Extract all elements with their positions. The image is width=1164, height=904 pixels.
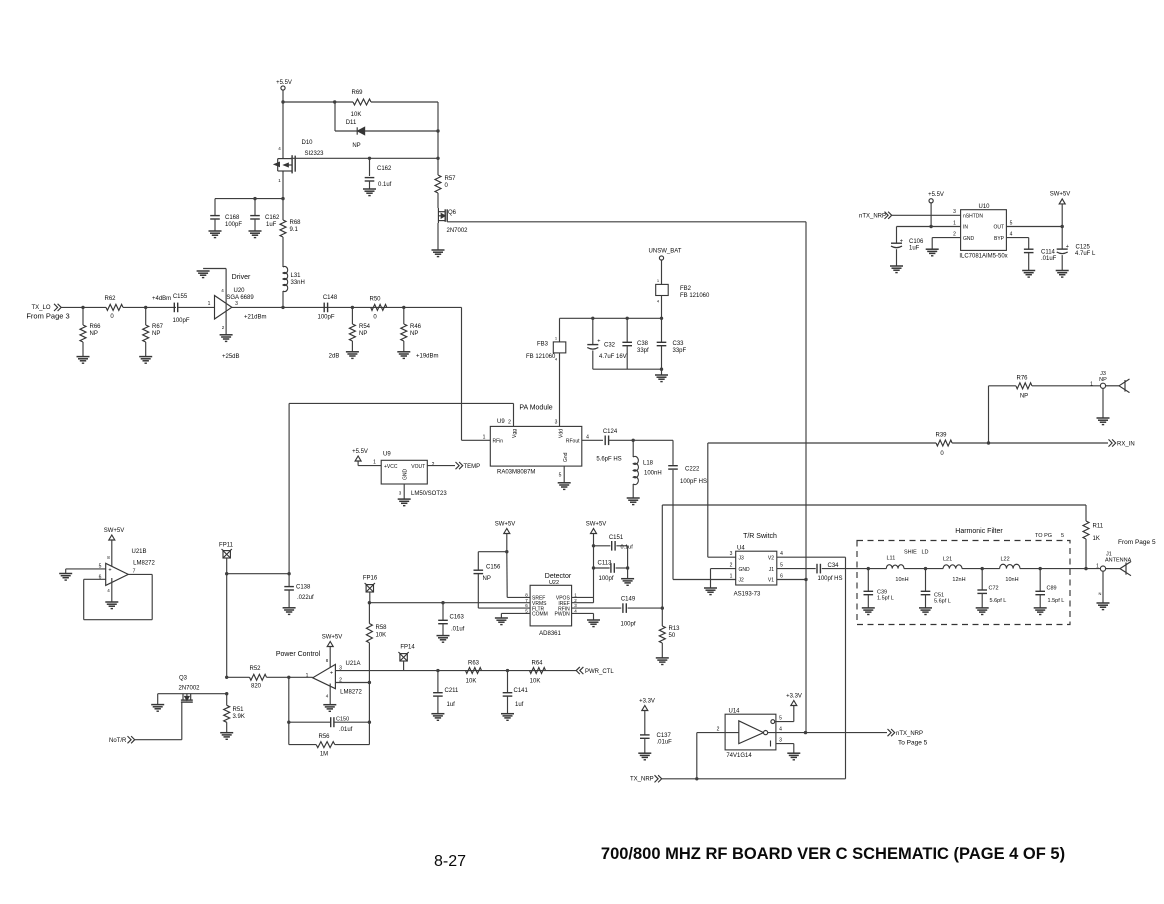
wire +5.5V to IN [930,203,932,226]
power +5.5V supply top-left [281,86,285,90]
junction C156 top [505,550,508,553]
wire [369,158,371,176]
svg-text:+19dBm: +19dBm [416,354,439,360]
svg-text:2N7002: 2N7002 [178,686,200,692]
svg-text:C125: C125 [1076,245,1091,251]
wire [335,744,370,746]
test point FP11 [222,549,232,558]
svg-text:10K: 10K [530,679,541,685]
ground below C137 [638,753,651,760]
junction C151 [592,544,595,547]
svg-text:RFout: RFout [566,439,580,445]
wire U14 pin5 VCC [771,720,775,724]
wire [632,440,634,457]
svg-text:AS193-73: AS193-73 [734,592,761,598]
ground below J1 [1097,603,1110,610]
wire [1020,568,1101,570]
svg-text:FB2: FB2 [680,286,692,292]
svg-text:.01uF: .01uF [657,740,673,746]
wire [981,569,983,590]
resistor R39 (0) [936,440,952,446]
svg-text:U21A: U21A [345,661,360,667]
wire VOUT to TEMP [427,465,455,467]
wire [867,569,869,592]
svg-text:Harmonic Filter: Harmonic Filter [955,528,1003,535]
svg-text:10K: 10K [466,679,477,685]
wire C149 to node [628,607,663,609]
ground below C72 [976,608,989,615]
temp sensor U9 LM50/SOT23 [381,460,427,484]
ground below R51 [220,733,233,740]
wire [896,249,898,266]
wire U21A V+ pin [329,647,331,671]
junction L31 feed [281,306,284,309]
wire PA gnd pin [563,466,565,483]
wire nTX_NRP to nSHTDN [892,214,961,216]
svg-text:1: 1 [1090,382,1093,388]
power SW+5V for U21B [109,535,115,540]
wire J3 to ground [1102,388,1104,418]
svg-text:R64: R64 [531,661,543,667]
wire R57 to Q6 drain [437,193,439,208]
svg-text:C148: C148 [323,295,338,301]
svg-text:10K: 10K [376,633,387,639]
wire U14 pin3 GND [770,741,772,747]
wire bypass rail [560,317,662,319]
wire FP16 down [369,592,371,603]
wire [644,738,646,753]
wire R58 to U21A pin2 [368,643,370,683]
svg-text:C113: C113 [598,561,613,567]
power SW+5V for U21A [327,642,333,647]
svg-text:R57: R57 [445,176,457,182]
junction +5.5V / R69 line [281,100,284,103]
svg-text:FB 121060: FB 121060 [526,354,556,360]
svg-text:PA Module: PA Module [519,405,552,412]
svg-text:4: 4 [779,727,782,733]
svg-text:J2: J2 [739,578,745,584]
svg-text:NP: NP [410,331,418,337]
junction output/feedback [287,676,290,679]
svg-text:TEMP: TEMP [464,464,481,470]
svg-text:33pF: 33pF [673,348,687,354]
svg-text:V1: V1 [768,578,774,584]
svg-text:3.9K: 3.9K [233,714,245,720]
junction SW+5V node [1061,225,1064,228]
svg-text:LM50/SOT23: LM50/SOT23 [411,491,447,497]
svg-text:PWDN: PWDN [555,612,571,618]
junction V1/bus [804,578,807,581]
harmonic filter shield dashed box [857,541,1070,625]
ground T/R switch [704,588,717,595]
ground below U14 [787,753,800,760]
wire OUT pin [1006,226,1062,228]
ground below U10 GND [926,249,939,256]
junction D11 branch [333,100,336,103]
ground Q3 source [151,705,164,712]
svg-text:+5.5V: +5.5V [276,80,292,86]
svg-text:SW+5V: SW+5V [1050,192,1071,198]
wire U21B V+ pin [111,540,113,570]
ground below R67 [139,357,152,364]
svg-text:6: 6 [780,574,783,580]
junction IN node [929,225,932,228]
svg-text:SW+5V: SW+5V [322,635,343,641]
inductor L11 (10nH) [886,565,904,569]
wire FP11 node to C138 node [227,573,289,575]
junction R66 [81,306,84,309]
svg-text:RFin: RFin [493,439,504,445]
wire [594,567,610,569]
wire [145,307,147,325]
svg-text:COMM: COMM [532,612,548,618]
wire FP14 down [403,661,405,671]
wire RF sense riser [661,505,663,608]
ground below U20 [220,335,233,342]
svg-text:SW+5V: SW+5V [495,522,516,528]
junction C39 [867,567,870,570]
wire [214,199,216,216]
wire [254,219,256,231]
wire [334,721,369,723]
resistor R11 (1K) [1083,521,1089,539]
wire TX_LO to R62 [62,306,107,308]
svg-text:R62: R62 [104,296,116,302]
wire [145,342,147,357]
svg-text:Driver: Driver [232,274,251,281]
svg-text:3: 3 [779,738,782,744]
capacitor C124 (5.6pF HS) [604,436,606,446]
svg-text:From Page 5: From Page 5 [1118,539,1156,546]
svg-text:+: + [1066,244,1069,250]
svg-text:5.6pF HS: 5.6pF HS [596,457,621,463]
wire [594,545,611,547]
svg-text:C168: C168 [225,215,240,221]
junction bus/output [804,731,807,734]
junction FP11 node [225,572,228,575]
svg-text:L21: L21 [943,557,952,563]
wire U21A output [289,676,313,678]
svg-text:C155: C155 [173,294,188,300]
svg-text:R68: R68 [290,220,302,226]
svg-text:J3: J3 [739,555,745,561]
wire R76 to J3 [1032,385,1101,387]
wire [507,671,509,693]
junction C150 left [287,721,290,724]
wire [1039,595,1041,608]
svg-text:AD8361: AD8361 [539,631,561,637]
svg-text:C150: C150 [336,717,349,723]
wire D11 cathode to right rail [365,130,438,132]
svg-text:3: 3 [953,209,956,215]
wire bypass rail bottom [593,368,662,370]
svg-text:5.6pf L: 5.6pf L [990,598,1007,604]
antenna symbol at J3 [1106,379,1130,393]
wire VRMS line [369,602,530,604]
svg-text:J1: J1 [769,567,775,573]
wire FB3 to PA Vdd [559,353,561,427]
svg-text:820: 820 [251,684,262,690]
junction pin2/R58/feedback [368,681,371,684]
svg-text:33nH: 33nH [291,280,305,286]
svg-text:To Page 5: To Page 5 [898,740,928,747]
svg-text:2N7002: 2N7002 [446,228,468,234]
svg-text:2dB: 2dB [329,354,340,360]
wire J1 to ground [1102,571,1104,603]
svg-text:4: 4 [1010,232,1013,238]
wire [369,181,371,189]
wire [82,307,84,325]
svg-text:GND: GND [403,469,409,481]
ground U21B pin5 [59,574,72,581]
wire [368,603,370,624]
svg-text:N: N [1099,591,1102,596]
svg-text:R54: R54 [359,324,371,330]
wire U10 GND pin [932,237,960,239]
junction FP16/VRMS/R58 [368,601,371,604]
op-amp U20 driver SGA-6689 [215,296,232,320]
junction R76 branch [987,441,990,444]
svg-text:GND: GND [739,567,751,573]
wire U21B feedback loop [151,574,153,619]
svg-text:C162: C162 [265,215,280,221]
svg-text:Gnd: Gnd [563,452,569,462]
wire [267,676,289,678]
ground below C138 [283,608,296,615]
wire VPOS pin [572,596,594,598]
resistor R50 [371,304,387,310]
wire [226,722,228,732]
wire IREF pin [572,602,594,604]
svg-text:3: 3 [235,301,238,307]
junction C162b [253,197,256,200]
wire C156 to FLTR [477,574,479,608]
T/R switch U4 AS193-73 [736,551,777,585]
wire FB2 down [661,296,663,319]
junction C51 [924,567,927,570]
wire [1039,569,1041,592]
ground below R54 [346,352,359,359]
svg-text:1uf: 1uf [447,702,456,708]
svg-text:nTX_NRP: nTX_NRP [859,214,886,220]
svg-text:+5.5V: +5.5V [928,192,944,198]
inductor L21 (12nH) [943,565,962,569]
svg-text:C33: C33 [673,341,685,347]
antenna symbol at J1 [1106,562,1131,576]
capacitor C155 (100pF) [173,303,175,313]
wire down to C222 [672,440,674,465]
svg-text:+3.3V: +3.3V [639,699,655,705]
wire SREF riser [506,534,508,552]
wire RF line down to PA input [461,307,463,440]
wire [867,595,869,608]
svg-text:R46: R46 [410,324,422,330]
test point FP16 [365,583,375,592]
wire L31 to RF line [282,291,284,307]
capacitor C149 (100pf) [622,603,624,613]
svg-text:LD: LD [922,550,929,556]
wire NoT/R to Q3 gate [135,739,182,741]
wire RFIN pin [572,607,622,609]
svg-text:10nH: 10nH [895,577,908,583]
svg-text:7: 7 [133,569,136,575]
junction R52/R51 node [225,676,228,679]
wire [288,590,290,608]
svg-text:Vgg: Vgg [512,429,518,438]
svg-text:5: 5 [1061,533,1064,539]
svg-text:1: 1 [483,435,486,441]
capacitor C156 (NP) [474,569,484,571]
svg-text:1: 1 [373,460,376,466]
svg-text:.01uF: .01uF [1041,256,1057,262]
svg-text:10K: 10K [351,112,362,118]
wire [981,593,983,608]
wire [661,608,663,626]
svg-text:4.7uF L: 4.7uF L [1075,251,1096,257]
capacitor C114 (.01uF) [1024,248,1034,250]
svg-text:U21B: U21B [131,549,146,555]
svg-text:C72: C72 [989,586,999,592]
svg-text:RX_IN: RX_IN [1117,442,1135,448]
wire to FB3 [559,318,561,342]
resistor R69 [353,99,371,105]
capacitor C106 (1uF) [896,227,898,244]
svg-text:FP16: FP16 [363,576,378,582]
junction L18 [632,439,635,442]
junction R54 [351,306,354,309]
svg-text:Power Control: Power Control [276,651,321,658]
inductor L31 [283,266,288,291]
svg-text:.01uf: .01uf [339,727,353,733]
resistor R62 [106,304,123,310]
wire to PA RFin [462,439,491,441]
svg-text:10nH: 10nH [1005,577,1018,583]
wire V2 pin to TX_NRP riser [777,556,846,558]
junction C162 [368,157,371,160]
connector nTX_NRP output to page 5 [888,729,895,736]
capacitor C34 (100pf HS) [816,564,818,574]
svg-text:FP11: FP11 [219,543,234,549]
ground below C89 [1034,608,1047,615]
wire [254,199,256,216]
wire COMM to ground [501,612,530,614]
wire [507,696,509,714]
svg-text:+: + [597,339,600,345]
op-amp U21A LM8272 [313,664,336,688]
junction R46 [402,306,405,309]
svg-text:C38: C38 [637,341,649,347]
wire driver output line [232,306,462,308]
wire [661,369,663,375]
wire PA RFout [582,439,603,441]
wire R11 sense line [662,504,1086,506]
op-amp U21B LM8272 [106,563,129,585]
wire [632,484,634,498]
svg-text:IN: IN [963,225,968,231]
wire SREF [507,596,530,598]
svg-text:TX_NRP: TX_NRP [630,777,654,783]
wire [214,219,216,231]
svg-text:5: 5 [780,563,783,569]
wire U9 gnd pin [403,484,405,499]
wire control bus vertical [805,222,807,733]
wire C222 to T/R J2 [672,470,674,580]
svg-text:OUT: OUT [993,225,1004,231]
capacitor C125 (4.7uF L) [1061,227,1063,250]
junction C141 [506,669,509,672]
svg-text:5.6pf L: 5.6pf L [934,599,951,605]
svg-text:C151: C151 [609,535,624,541]
wire D10 gate line [291,157,438,159]
ground below COMM [495,618,508,625]
svg-text:FB3: FB3 [537,342,549,348]
power SW+5V for detector [591,529,597,534]
wire IN pin [897,226,961,228]
svg-text:12nH: 12nH [952,577,965,583]
svg-text:NP: NP [1020,394,1028,400]
wire [661,643,663,658]
svg-text:SGA 6689: SGA 6689 [226,295,254,301]
wire [626,346,628,370]
wire U21B pin5 to ground [66,568,106,570]
wire R68 to L31 [282,237,284,267]
ground U20 top [197,271,210,278]
svg-text:L11: L11 [887,556,896,562]
svg-text:.022uf: .022uf [297,595,314,601]
junction Q3 drain / R51 [225,692,228,695]
svg-text:UNSW_BAT: UNSW_BAT [649,249,682,255]
svg-text:NP: NP [1099,377,1107,383]
wire U14 input pin2 [697,732,739,734]
svg-text:NP: NP [152,331,160,337]
diode D11 [357,127,364,134]
svg-text:NP: NP [359,331,367,337]
svg-text:700/800 MHZ RF BOARD VER C SCH: 700/800 MHZ RF BOARD VER C SCHEMATIC (PA… [601,845,1065,863]
wire Q6 gate to bus [447,221,806,223]
connector TEMP output [456,462,463,469]
wire R11 to antenna node [1085,539,1087,569]
inductor L22 (10nH) [1000,564,1020,568]
svg-text:U9: U9 [383,452,391,458]
svg-text:+3.3V: +3.3V [786,694,802,700]
wire [962,568,1000,570]
ground below C106 [890,266,903,273]
svg-text:3: 3 [555,420,558,426]
junction C113 [592,566,595,569]
svg-text:R69: R69 [351,90,363,96]
svg-text:R76: R76 [1016,376,1028,382]
wire +5.5V to D10 source [282,90,284,157]
svg-text:U10: U10 [978,204,990,210]
wire RX line [708,442,936,444]
svg-text:C124: C124 [603,429,618,435]
svg-text:R56: R56 [318,734,330,740]
svg-text:4: 4 [780,551,783,557]
wire to VCC pin [358,465,381,467]
svg-text:NP: NP [483,576,491,582]
wire Q3 source to ground [157,694,159,705]
svg-text:+: + [900,238,903,244]
wire PWDN pin to ground [572,612,594,614]
wire Vgg bias line [289,402,513,404]
ground below Q6 [432,250,445,257]
wire FP11 down [226,558,228,574]
svg-text:100pF HS: 100pF HS [680,479,707,485]
wire C155 to driver input [178,306,215,308]
svg-text:100pf: 100pf [620,622,635,628]
power +3.3V for C137 [642,706,648,711]
svg-text:C163: C163 [450,615,465,621]
